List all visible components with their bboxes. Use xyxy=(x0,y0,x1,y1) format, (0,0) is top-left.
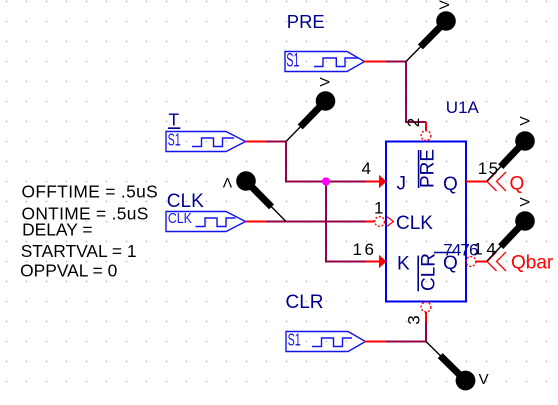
probe marker on CLR wire xyxy=(426,342,489,391)
svg-text:V: V xyxy=(517,116,533,126)
pin 1 CLK bubble and clock triangle xyxy=(366,217,393,227)
svg-text:STARTVAL = 1: STARTVAL = 1 xyxy=(21,241,137,261)
pin 14 Qbar bubble, stub, chevrons xyxy=(466,252,506,271)
svg-text:S1: S1 xyxy=(168,131,181,150)
stimulus pin stubs (red) xyxy=(245,62,386,342)
svg-text:S1: S1 xyxy=(288,331,301,350)
pin 3 CLR bubble xyxy=(421,302,431,322)
svg-text:CLR: CLR xyxy=(286,292,324,313)
wire CLK net xyxy=(265,221,367,223)
svg-text:PRE: PRE xyxy=(418,149,439,188)
svg-text:Q: Q xyxy=(510,174,525,195)
svg-text:4: 4 xyxy=(362,159,371,178)
probe marker on Qbar pin xyxy=(487,197,535,261)
probe marker on T wire xyxy=(286,77,335,142)
pin 16 K input arrow xyxy=(366,255,387,268)
svg-text:CLK: CLK xyxy=(168,210,192,226)
svg-text:Q: Q xyxy=(443,174,458,195)
inner pin name PRE rotated with overbar xyxy=(418,149,439,188)
probe marker on Q pin xyxy=(487,116,535,181)
pin 2 PRE bubble xyxy=(421,122,431,141)
stimulus S1 (PRE) xyxy=(285,52,365,72)
probe marker on CLK wire xyxy=(222,171,286,221)
svg-text:CLR: CLR xyxy=(418,253,439,291)
svg-text:S1: S1 xyxy=(286,51,299,72)
svg-text:OPPVAL = 0: OPPVAL = 0 xyxy=(20,261,117,281)
svg-text:1: 1 xyxy=(374,199,383,218)
svg-text:14: 14 xyxy=(473,240,499,259)
inner pin name Qbar with overbar xyxy=(434,253,458,275)
svg-text:CLK: CLK xyxy=(167,191,204,212)
wire CLR net xyxy=(385,341,427,343)
svg-text:Q: Q xyxy=(443,253,458,274)
svg-text:J: J xyxy=(397,174,407,195)
svg-text:CLK: CLK xyxy=(396,213,433,234)
svg-text:V: V xyxy=(222,175,232,191)
svg-text:V: V xyxy=(479,371,489,388)
pin 4 J input arrow xyxy=(366,175,387,188)
wire T net xyxy=(265,61,427,343)
junction node xyxy=(322,177,330,185)
JK flip-flop U1A body (7476) xyxy=(386,142,466,302)
parameter text block xyxy=(20,182,158,281)
svg-text:T: T xyxy=(169,110,180,130)
svg-text:PRE: PRE xyxy=(287,11,325,32)
svg-text:2: 2 xyxy=(404,118,423,127)
stimulus S1 (CLR) xyxy=(286,332,366,352)
svg-text:Qbar: Qbar xyxy=(511,252,554,273)
svg-text:15: 15 xyxy=(478,159,500,178)
probe marker on PRE wire xyxy=(406,0,456,62)
svg-text:DELAY =: DELAY = xyxy=(22,220,92,240)
svg-text:U1A: U1A xyxy=(446,98,480,117)
svg-text:16: 16 xyxy=(353,240,377,259)
pin 15 Q stub with chevrons xyxy=(466,172,506,191)
stimulus S1 (T) xyxy=(166,132,246,152)
stimulus CLK xyxy=(166,212,246,232)
svg-text:OFFTIME = .5uS: OFFTIME = .5uS xyxy=(22,182,159,202)
wire PRE net xyxy=(385,61,407,63)
svg-text:V: V xyxy=(517,197,533,207)
svg-text:3: 3 xyxy=(405,315,424,324)
svg-text:K: K xyxy=(397,254,410,275)
svg-text:V: V xyxy=(317,77,333,87)
svg-text:V: V xyxy=(436,0,452,9)
net label T xyxy=(168,110,180,130)
inner pin name CLR rotated with overbar xyxy=(418,253,439,291)
